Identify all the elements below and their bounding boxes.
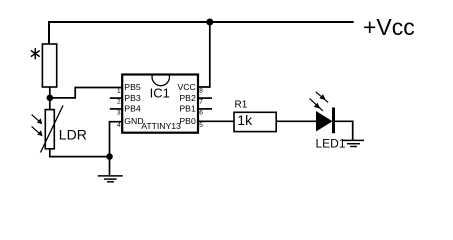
svg-text:6: 6 [199,110,203,117]
svg-text:PB3: PB3 [124,93,141,103]
svg-text:PB0: PB0 [179,116,196,126]
svg-text:PB1: PB1 [179,104,196,114]
svg-text:VCC: VCC [177,82,195,92]
svg-text:1: 1 [117,88,121,95]
svg-text:1k: 1k [237,112,253,128]
svg-text:PB4: PB4 [124,104,141,114]
svg-text:ATTINY13: ATTINY13 [141,121,181,131]
svg-text:IC1: IC1 [150,86,170,101]
svg-text:+Vcc: +Vcc [363,14,415,40]
svg-text:5: 5 [199,122,203,129]
svg-text:LED1: LED1 [316,136,346,150]
svg-text:PB5: PB5 [124,82,141,92]
svg-text:2: 2 [117,99,121,106]
svg-text:PB2: PB2 [179,93,196,103]
svg-text:4: 4 [117,122,121,129]
svg-text:3: 3 [117,110,121,117]
svg-text:8: 8 [199,88,203,95]
svg-text:7: 7 [199,99,203,106]
svg-text:LDR: LDR [59,127,87,143]
svg-text:R1: R1 [235,100,248,111]
